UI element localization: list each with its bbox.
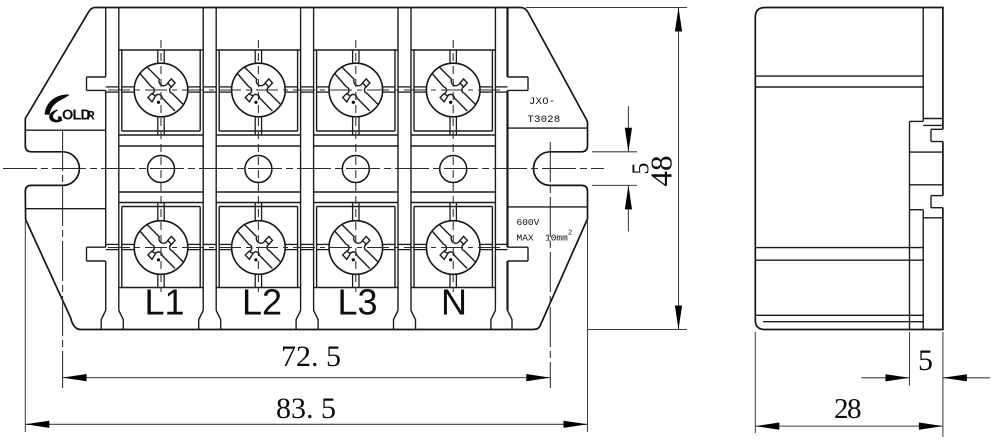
svg-text:83. 5: 83. 5 — [276, 392, 336, 425]
right slot centerline — [549, 142, 551, 388]
module 3 walls — [313, 8, 315, 311]
right upper notch — [508, 76, 529, 78]
dim 48 line — [678, 8, 680, 330]
right lower notch — [508, 246, 529, 248]
dim 28 line — [755, 425, 943, 427]
gap 0 clamp lines — [106, 243, 119, 245]
foot 1 — [199, 311, 204, 330]
dim 83.5 extensions — [24, 221, 26, 432]
dim 5 slot extensions — [592, 151, 637, 153]
module 3 upper clamp top/bottom lines — [352, 50, 354, 63]
module 2 walls — [215, 8, 217, 311]
main horizontal centerline — [3, 168, 604, 170]
module 2 lower clamp top/bottom lines — [254, 203, 256, 221]
dim 5 side line — [861, 377, 909, 379]
gap 4 clamp lines — [495, 243, 507, 245]
gap 1 clamp lines — [203, 243, 216, 245]
dim 72.5 line — [63, 377, 551, 379]
dim 83.5 line — [25, 423, 587, 425]
side view lower step — [910, 209, 924, 211]
terminal screw lower 2 — [232, 221, 286, 275]
module 2 lower cavity — [216, 202, 300, 204]
module 4 middle wire box — [411, 145, 495, 147]
right end horizontal rib lower — [508, 206, 588, 208]
side view slot band — [910, 151, 943, 153]
svg-text:28: 28 — [834, 393, 861, 425]
left slot centerline — [62, 131, 64, 388]
gap 2 clamp lines — [301, 243, 314, 245]
wire hole 4 — [440, 156, 467, 183]
wire hole 2 — [245, 156, 272, 183]
module 2 lower clamp side lines — [219, 243, 231, 245]
left end foot — [101, 311, 106, 330]
dim 48 extension top — [526, 7, 687, 9]
side view upper step — [922, 8, 924, 122]
svg-text:600V: 600V — [517, 217, 540, 228]
side view upper clip notch — [931, 128, 943, 130]
svg-text:JXO-: JXO- — [529, 96, 555, 108]
side view outline — [755, 8, 943, 330]
terminal screw lower 4 — [426, 221, 480, 275]
module 3 upper cavity — [314, 49, 398, 51]
side view lower rib lines — [755, 247, 923, 249]
module 4 vertical centerline — [452, 40, 454, 292]
module 1 vertical centerline — [160, 40, 162, 292]
module 1 upper cavity — [119, 49, 203, 51]
dim 5 slot arrows — [627, 106, 629, 152]
side view lower clip notch — [931, 195, 943, 197]
dim 5 side extensions — [909, 332, 911, 386]
side view bottom ledge — [755, 314, 923, 316]
terminal screw upper 1 — [134, 63, 188, 117]
module 1 middle wire box — [119, 145, 203, 147]
module 3 lower clamp top/bottom lines — [352, 203, 354, 221]
svg-text:MAX: MAX — [517, 233, 534, 244]
left end wall — [105, 8, 107, 78]
svg-text:5: 5 — [629, 163, 655, 175]
module 3 middle wire box — [314, 145, 398, 147]
svg-text:5: 5 — [918, 344, 933, 377]
foot 2 — [296, 311, 301, 330]
terminal screw lower 1 — [134, 221, 188, 275]
dim 28 extension — [754, 332, 756, 433]
module 4 walls — [410, 8, 412, 311]
module 2 upper clamp top/bottom lines — [254, 50, 256, 63]
left end horizontal rib lower — [25, 208, 105, 210]
gap 3 clamp lines — [398, 243, 411, 245]
module 4 upper cavity — [411, 49, 495, 51]
terminal screw upper 2 — [232, 63, 286, 117]
module 3 lower cavity — [314, 202, 398, 204]
svg-text:10mm: 10mm — [545, 233, 568, 244]
module 4 lower clamp side lines — [414, 243, 426, 245]
module 1 lower cavity — [119, 202, 203, 204]
gap 1 clamp lines — [203, 86, 216, 88]
svg-text:R: R — [87, 111, 96, 123]
module 1 upper clamp side lines — [122, 86, 134, 88]
module 1 lower clamp top/bottom lines — [157, 203, 159, 221]
dim 48 extension bottom — [588, 329, 687, 331]
left lower notch — [87, 246, 106, 248]
module 1 upper clamp top/bottom lines — [157, 50, 159, 63]
right end wall — [506, 8, 508, 78]
module 3 vertical centerline — [355, 40, 357, 292]
module 2 middle wire box — [216, 145, 300, 147]
module 4 upper clamp side lines — [414, 86, 426, 88]
GOLDR logo — [45, 94, 96, 123]
svg-text:T3028: T3028 — [528, 114, 561, 126]
foot 3 — [394, 311, 399, 330]
lower row centerline — [108, 247, 505, 249]
wire hole 1 — [148, 156, 175, 183]
terminal screw lower 3 — [329, 221, 383, 275]
left upper notch — [87, 76, 106, 78]
module 2 vertical centerline — [257, 40, 259, 292]
svg-text:72. 5: 72. 5 — [281, 340, 341, 373]
terminal screw upper 3 — [329, 63, 383, 117]
module 1 walls — [118, 8, 120, 311]
terminal screw upper 4 — [426, 63, 480, 117]
gap 4 clamp lines — [495, 86, 507, 88]
module 2 upper cavity — [216, 49, 300, 51]
module 4 upper clamp top/bottom lines — [449, 50, 451, 63]
right end horizontal rib upper — [508, 127, 588, 129]
svg-text:2: 2 — [568, 230, 572, 238]
side view upper rib lines — [755, 75, 923, 77]
module 4 lower clamp top/bottom lines — [449, 203, 451, 221]
svg-text:N: N — [441, 282, 467, 323]
module 4 lower cavity — [411, 202, 495, 204]
svg-text:L1: L1 — [144, 282, 184, 323]
left end horizontal rib upper — [25, 129, 105, 131]
svg-text:L3: L3 — [337, 282, 377, 323]
module 3 upper clamp side lines — [317, 86, 329, 88]
right end foot — [491, 311, 496, 330]
module 3 lower clamp side lines — [317, 243, 329, 245]
side view front edge — [909, 121, 911, 329]
module 2 upper clamp side lines — [219, 86, 231, 88]
svg-text:L2: L2 — [242, 282, 282, 323]
upper row centerline — [108, 89, 505, 91]
gap 3 clamp lines — [398, 86, 411, 88]
module 1 lower clamp side lines — [122, 243, 134, 245]
wire hole 3 — [342, 156, 369, 183]
gap 2 clamp lines — [301, 86, 314, 88]
front view body outline — [25, 8, 587, 330]
gap 0 clamp lines — [106, 86, 119, 88]
